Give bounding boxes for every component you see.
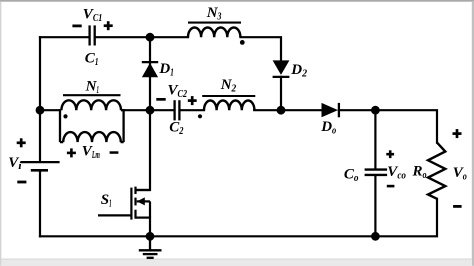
inductor N1 parallel rails [60, 109, 124, 142]
wire Do cathode to node D and right corner down to Ro [339, 110, 437, 142]
gate bar [130, 188, 132, 220]
node A junction dot top [146, 33, 155, 42]
plus sign of Vo [453, 129, 462, 138]
polarity dot of N1 [63, 114, 67, 118]
capacitor C1 [90, 25, 95, 45]
page edge shading right [472, 2, 474, 266]
minus sign of VC2 [156, 98, 165, 101]
diode Do [322, 103, 339, 117]
resistor Ro zigzag [428, 143, 445, 199]
node E junction dot left [36, 106, 45, 115]
minus sign of Vi [17, 181, 26, 184]
page edge shading top [0, 0, 474, 2]
wire node E to N1 left rail [40, 109, 60, 111]
diode D2 [273, 60, 290, 77]
body connection [137, 200, 150, 202]
source connection [136, 217, 151, 219]
wire Vi bottom plate to bottom-left corner [39, 171, 41, 237]
ground symbol [139, 236, 162, 257]
node D junction dot Co top [371, 106, 380, 115]
wire Co bottom plate down to bottom rail [374, 176, 376, 236]
minus sign of VC1 [72, 25, 81, 28]
minus sign of VLm [110, 151, 119, 154]
polarity dot of N3 [240, 40, 245, 45]
inductor Lm winding [63, 132, 121, 142]
polarity dot of N2 [198, 114, 202, 118]
wire N2 right end to node C [254, 109, 281, 111]
inductor N1 core bar [63, 94, 121, 96]
voltage source Vi short plate [31, 169, 48, 172]
minus sign of Vco [387, 185, 395, 188]
inductor N2 core bar [202, 95, 255, 97]
plus sign of VLm [67, 148, 76, 157]
page edge shading left [0, 2, 1, 266]
capacitor Co [365, 170, 388, 175]
wire C2 right plate to N2 [181, 109, 205, 111]
wire S1 source down to ground node [149, 218, 151, 237]
body arrow of S1 [137, 197, 145, 205]
wire C1 right plate to node A [96, 36, 189, 38]
wire N1 right rail to node B [124, 109, 174, 111]
wire top-left corner to C1 left plate [40, 36, 89, 38]
inductor N2 winding [204, 100, 254, 110]
wire node C to Do anode [281, 109, 322, 111]
plus sign of Vco [386, 150, 394, 158]
body-source rail [149, 201, 151, 217]
wire node D down to Co top plate [374, 110, 376, 168]
channel segment source [134, 210, 136, 219]
ground node junction dot [146, 232, 155, 241]
wire N3 right end to top-right corner down to D2 anode [241, 37, 282, 61]
junction dot Co bottom [371, 232, 380, 241]
minus sign of Vo [453, 205, 462, 208]
inductor N3 core bar [188, 22, 241, 24]
plus sign of VC2 [188, 96, 197, 105]
node B junction dot middle [146, 106, 155, 115]
wire node B down to S1 drain bend [136, 110, 150, 190]
channel segment drain [134, 187, 136, 194]
transistor S1 MOSFET [98, 187, 150, 220]
gate lead [98, 214, 131, 216]
capacitor C2 [175, 100, 180, 120]
node C junction dot after N2 [277, 106, 286, 115]
drain connection [136, 189, 151, 191]
channel segment body [134, 198, 136, 206]
voltage source Vi long plate [21, 161, 60, 163]
wire left column from top corner to Vi plate [39, 37, 41, 161]
wire D2 cathode down to node C [280, 77, 282, 110]
inductor N1 winding [61, 100, 121, 110]
wire node A down through D1 to node B [149, 37, 151, 110]
inductor N3 winding [188, 27, 240, 37]
page edge shading bottom strip [1, 259, 471, 266]
plus sign of Vi [17, 138, 26, 147]
plus sign of VC1 [104, 21, 113, 30]
diode D1 [142, 62, 158, 77]
wire Ro bottom to bottom-right corner and bottom rail [40, 199, 437, 237]
